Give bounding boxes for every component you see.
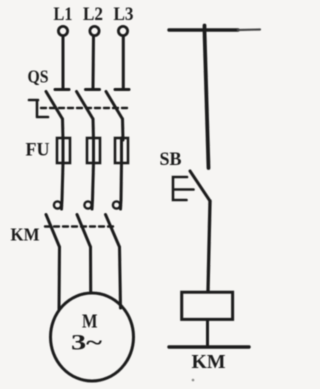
wire SB to coil <box>208 201 210 291</box>
svg-text:SB: SB <box>160 149 182 170</box>
wire QS to FU pole 1 <box>61 119 65 140</box>
wire FU to KM pole 1 <box>62 163 63 200</box>
terminal circle L3 <box>118 26 127 35</box>
control bus top line <box>169 28 238 31</box>
wire QS to FU pole 3 <box>121 119 125 140</box>
wire bus to SB <box>205 26 209 169</box>
pushbutton SB actuator <box>173 177 194 200</box>
speck below KM label <box>192 379 195 382</box>
fuse FU pole 2 <box>87 138 100 163</box>
wire KM to motor pole 3 <box>120 247 121 308</box>
svg-text:QS: QS <box>28 67 49 87</box>
motor M circle <box>51 293 134 381</box>
KM dashed link <box>45 225 114 227</box>
bottom bus bar <box>169 345 249 348</box>
QS pole 2 blade <box>77 92 94 120</box>
control bus top line faded right part <box>238 28 260 31</box>
KM main contact pole 3 <box>106 200 122 247</box>
KM main contact pole 1 <box>46 200 62 247</box>
QS handle <box>29 100 48 117</box>
coil KM rectangle <box>182 292 233 319</box>
terminal circle L2 <box>90 26 99 35</box>
wire FU to KM pole 3 <box>120 163 124 200</box>
svg-text:L1: L1 <box>54 4 73 25</box>
QS pole 1 blade <box>46 92 63 120</box>
svg-text:3~: 3~ <box>71 330 103 355</box>
wire KM to motor pole 2 <box>89 247 92 293</box>
wire QS to FU pole 2 <box>92 119 96 140</box>
QS pole 2 fixed contact bar <box>86 88 100 91</box>
QS pole 1 fixed contact bar <box>55 88 69 91</box>
svg-text:L3: L3 <box>114 4 134 25</box>
svg-text:FU: FU <box>26 140 50 161</box>
QS pole 3 fixed contact bar <box>115 88 129 91</box>
pushbutton SB contact blade <box>190 171 210 201</box>
wire KM to motor pole 1 <box>58 247 62 309</box>
wire L3 to QS <box>122 36 125 88</box>
KM main contact pole 2 <box>77 200 93 247</box>
fuse FU pole 3 <box>115 138 128 163</box>
wire coil to bottom bar <box>206 321 209 347</box>
wire L1 to QS <box>62 36 65 88</box>
QS pole 3 blade <box>106 92 123 120</box>
svg-text:KM: KM <box>192 351 226 373</box>
wire L2 to QS <box>92 36 96 88</box>
wire FU to KM pole 2 <box>93 163 94 200</box>
fuse FU pole 1 <box>57 138 70 163</box>
QS dashed link <box>41 107 127 109</box>
terminal circle L1 <box>58 26 67 35</box>
svg-text:L2: L2 <box>83 4 103 25</box>
svg-text:KM: KM <box>11 225 40 245</box>
